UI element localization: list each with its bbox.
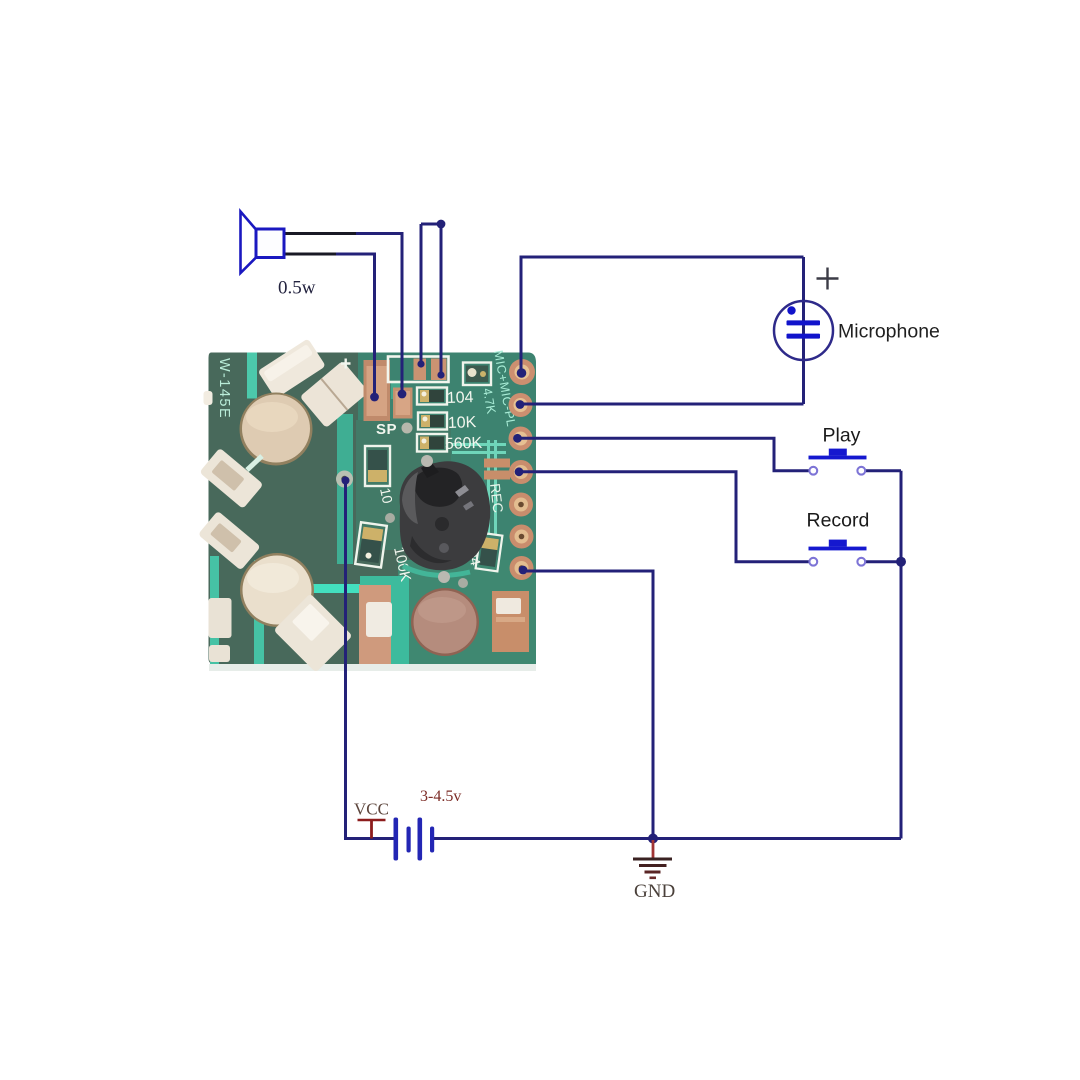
ground bar 4 [650, 877, 657, 880]
junction dot ground/bottom bus [648, 834, 658, 844]
top connector silk outline [388, 357, 449, 383]
copper pad bottom-middle [359, 585, 391, 664]
play terminal right [857, 467, 865, 475]
header pad 1 (MIC+) [509, 359, 535, 385]
white pad overhang left edge [204, 391, 213, 405]
svg-text:560K: 560K [445, 435, 483, 453]
header pad 6 [510, 525, 534, 549]
board mid panel [356, 420, 451, 550]
record button plunger [829, 540, 847, 547]
wire tip dot at SP left pad [370, 393, 379, 402]
battery long plate 1 [394, 818, 399, 861]
resistor R6 (04 area) silk box [476, 533, 503, 572]
board right/upper emerald solder-mask panel [358, 353, 536, 561]
wire tip dot at jumper leg1 [417, 360, 424, 367]
wire tip dot at jumper leg2 [437, 371, 444, 378]
wire bottom bus : battery to right bus corner [434, 837, 901, 840]
white pad top-left (rotated) [258, 338, 326, 398]
play button bar [809, 456, 867, 460]
push button S2 Record [807, 510, 870, 566]
wire tip dot at header pad7 [519, 566, 528, 575]
speaker cone [241, 212, 257, 274]
resistor R5 (100K) lower-left silk box [355, 522, 387, 567]
wire jumper top bar [421, 223, 441, 226]
wire record : header pad4 to record switch left terminal [519, 472, 809, 562]
wire microphone body vertical [802, 257, 805, 404]
wire tip dot at header pad3 [513, 434, 522, 443]
wire speaker+ : speaker box to SP right pad [284, 234, 402, 395]
wire jumper right leg to connector finger 2 [440, 224, 443, 375]
wire tip dot at header pad1 [517, 368, 527, 378]
board substrate [209, 353, 537, 665]
wire tip dot at SP right pad [398, 390, 407, 399]
resistor R2 (10K) [418, 413, 447, 430]
bright teal trace: small top area near connector [391, 382, 400, 399]
wire VCC : via down to bottom bus and to battery [346, 480, 396, 839]
white pad on bottom-middle copper [366, 602, 392, 637]
bright teal trace: horizontal mid-left [284, 584, 364, 593]
grey dot right of blob [458, 578, 468, 588]
white silkscreen + mark [341, 359, 351, 369]
header pad 5 [509, 493, 533, 517]
resistor R4 (10) silk box left of blob [365, 446, 390, 486]
wire jumper left leg to connector finger 1 [420, 224, 423, 364]
wire microphone+ : header pad1 up and over to mic [521, 257, 804, 374]
wire speaker- : speaker box to SP left pad [284, 254, 375, 397]
play button plunger [829, 449, 847, 456]
svg-text:3-4.5v: 3-4.5v [420, 788, 461, 805]
svg-text:Play: Play [823, 425, 861, 447]
record terminal left [809, 558, 817, 566]
header pad 2 (MIC-) [509, 393, 533, 417]
mint trace nick between circle1 and pad C [247, 456, 262, 470]
solder ball grey dot [402, 423, 413, 434]
resistor R1 (104) [417, 388, 447, 405]
svg-text:W-145E: W-145E [216, 358, 232, 419]
microphone MK1 [774, 268, 940, 361]
bright teal trace: vertical via band [337, 414, 353, 564]
connector finger 1 (copper) [414, 359, 427, 381]
junction dot jumper [437, 220, 446, 229]
bright teal trace: band to bottom middle [390, 588, 409, 664]
white pad top-mid (rotated) with seam [300, 361, 369, 428]
wire tip dot at header pad2 [516, 400, 525, 409]
grey ball below blob [438, 571, 450, 583]
wire ground : header pad7 right then down [523, 571, 653, 839]
grey dot above R5 [385, 513, 395, 523]
wire microphone- : mic bottom back to header pad2 [520, 403, 804, 406]
rose electret pad bottom-center [411, 588, 479, 656]
ground symbol GND [633, 840, 675, 902]
wire tip dot at via [342, 477, 350, 485]
component C? top-right small part with silk box [463, 363, 491, 386]
VCC net symbol [354, 800, 389, 839]
speaker LS1 0.5w [241, 212, 316, 299]
COB chip blob (black epoxy) [403, 566, 470, 575]
play terminal left [809, 467, 817, 475]
wire right bus vertical [900, 471, 903, 839]
wire play : header pad3 to play switch left terminal [517, 438, 809, 470]
connector finger 2 (copper) [431, 359, 447, 381]
SP pad left (copper) [364, 360, 391, 421]
big tan piezo pad upper-left [240, 393, 313, 466]
resistor R3 (560K) [417, 434, 447, 452]
small white pad on bottom-left edge [209, 598, 232, 638]
ground bar 2 [639, 864, 667, 867]
svg-text:104: 104 [447, 389, 474, 407]
svg-text:GND: GND [634, 881, 675, 902]
svg-text:Microphone: Microphone [838, 321, 940, 343]
push button S1 Play [809, 425, 867, 475]
wire (black overlay) speaker+ horizontal [284, 232, 356, 235]
SP pad right (copper) [393, 388, 413, 419]
copper pad bottom-right [492, 591, 529, 652]
bright teal trace: horizontal top of bottom-mid pad [360, 576, 409, 588]
record button bar [809, 547, 867, 551]
wire record right terminal to bus [866, 560, 902, 563]
VCC tee bar [358, 819, 386, 822]
PCB sound module board [198, 338, 536, 672]
junction dot record/bus [896, 557, 906, 567]
plus sign [817, 268, 839, 290]
ground stem [652, 840, 655, 859]
wire tip dot at header pad4 [515, 467, 524, 476]
via hole on teal band [336, 471, 353, 488]
VCC tee stem [370, 820, 373, 839]
white pad mid-left D (rotated, notched) [198, 511, 261, 571]
big cream piezo pad lower-left [240, 553, 314, 627]
board bottom-left slightly pale edge [209, 664, 536, 671]
wire play right terminal to right bus [866, 469, 902, 472]
record terminal right [857, 558, 865, 566]
bright teal traces: thin lines right of resistors [452, 443, 506, 446]
battery BT1 3-4.5v [394, 788, 462, 861]
svg-text:0.5w: 0.5w [278, 278, 316, 299]
battery short plate 1 [407, 827, 411, 853]
grey ball top of blob [421, 455, 433, 467]
mic polarity dot [787, 306, 795, 314]
header pad 4 (REC) [509, 460, 533, 484]
bright teal trace: left edge verticals bottom [210, 556, 219, 664]
header pad 3 (PL) [509, 427, 533, 451]
ground bar 3 [645, 871, 661, 874]
board lower-right emerald panel [398, 560, 536, 664]
svg-text:VCC: VCC [354, 800, 389, 819]
small white pad bottom-left corner [209, 645, 230, 662]
bright teal trace: vertical at left edge top [247, 353, 257, 399]
battery short plate 2 [430, 827, 434, 853]
header pad 7 (GND) [510, 556, 534, 580]
ground bar 1 [633, 858, 672, 861]
battery long plate 2 [418, 818, 423, 861]
REC copper pads [484, 459, 510, 468]
svg-text:10K: 10K [448, 414, 477, 432]
svg-text:Record: Record [807, 510, 870, 532]
mic plate top [787, 320, 821, 325]
white diamond pad bottom-center (rotated) [273, 593, 352, 672]
mic circle [774, 301, 833, 360]
speaker box [256, 229, 284, 258]
white pad mid-left C (rotated, notched) [199, 448, 263, 509]
mic plate bottom [787, 334, 821, 339]
svg-text:SP: SP [376, 421, 397, 438]
wire (black overlay) speaker- horizontal [284, 253, 336, 256]
